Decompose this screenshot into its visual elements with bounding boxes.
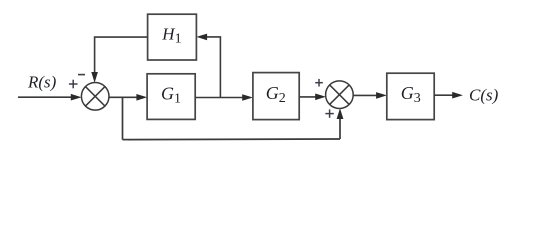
sign + at S1 left input (69, 80, 78, 89)
arrow into block G2 (242, 94, 253, 101)
wire R(s) input (18, 96, 73, 98)
wire G2 to S2 (299, 96, 317, 98)
wire H1 output to S1 top (95, 37, 148, 74)
wire S1 to G1 (109, 96, 139, 98)
wire G3 output (434, 94, 454, 96)
block H1 (148, 14, 197, 60)
node/branch wire up to H1 (207, 37, 221, 98)
wire bottom feedforward (123, 138, 341, 141)
arrow into summing junction S1 (71, 94, 82, 101)
wire G1 to G2 (195, 97, 244, 99)
sign + at S2 left input (315, 79, 323, 87)
svg-text:R(s): R(s) (27, 73, 57, 92)
arrow into block G3 (376, 92, 387, 99)
block G3 (387, 73, 434, 119)
wire S2 to G3 (353, 94, 378, 96)
sign - at S1 top input (78, 74, 85, 76)
arrow up into S2 (337, 108, 344, 119)
block G1 (147, 74, 195, 120)
node/branch wire down from S1 output (122, 97, 124, 139)
arrow to C(s) (452, 92, 463, 99)
summing junction S1 (81, 83, 109, 111)
arrow into summing junction S2 (315, 94, 326, 101)
arrow into block G1 (136, 94, 147, 101)
wire up into S2 bottom (339, 117, 341, 139)
svg-text:C(s): C(s) (469, 85, 499, 104)
arrow down into S1 (91, 72, 98, 83)
sign + at S2 bottom input (325, 109, 333, 117)
block G2 (253, 73, 299, 120)
summing junction S2 (326, 81, 354, 109)
arrow into H1 right side (196, 34, 207, 41)
